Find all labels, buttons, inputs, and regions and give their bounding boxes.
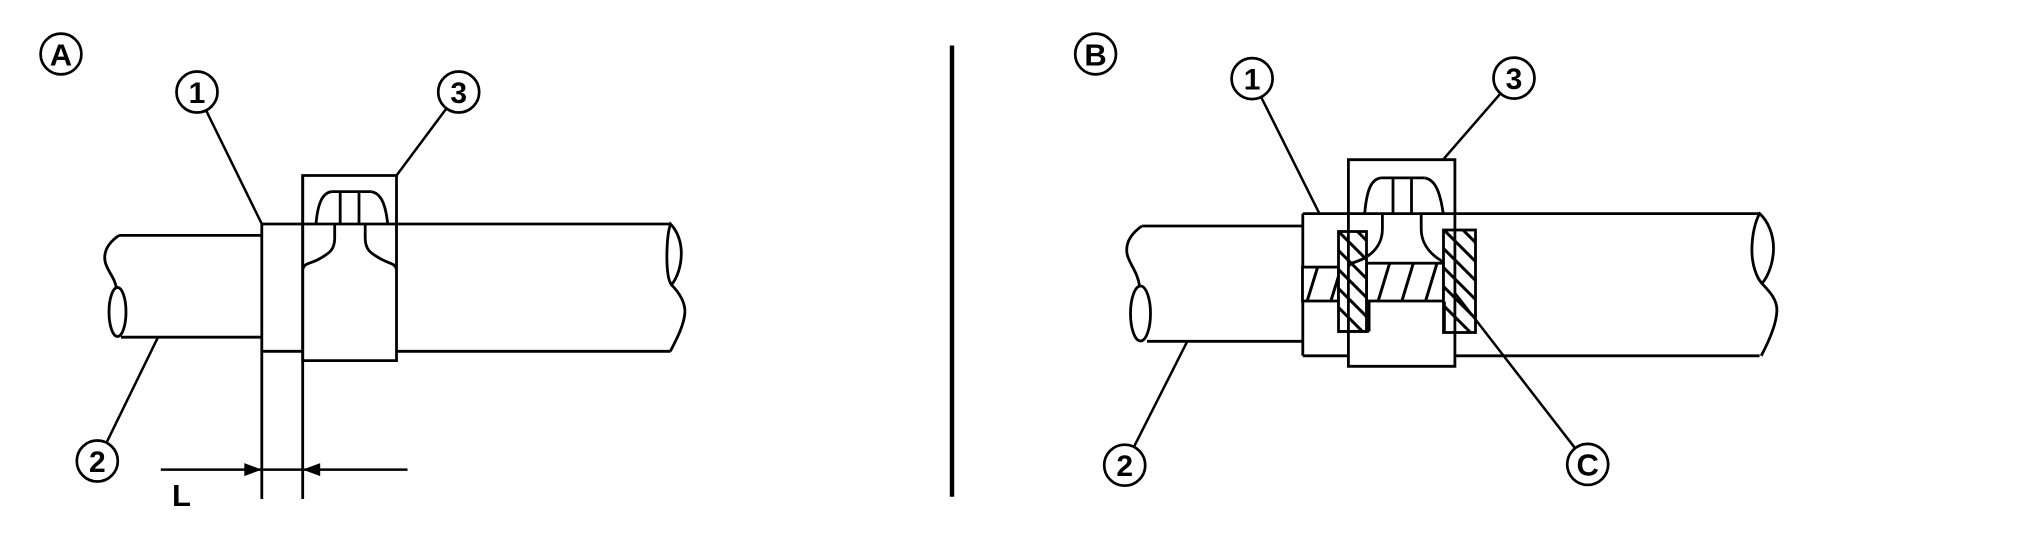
svg-text:2: 2: [89, 446, 106, 479]
svg-text:3: 3: [1506, 63, 1523, 96]
svg-text:2: 2: [1116, 450, 1133, 483]
svg-text:3: 3: [450, 77, 467, 110]
svg-text:L: L: [172, 478, 191, 513]
svg-text:A: A: [50, 37, 72, 72]
svg-text:B: B: [1084, 37, 1106, 72]
svg-text:C: C: [1577, 448, 1599, 483]
svg-text:1: 1: [1244, 64, 1261, 97]
svg-text:1: 1: [189, 77, 206, 110]
